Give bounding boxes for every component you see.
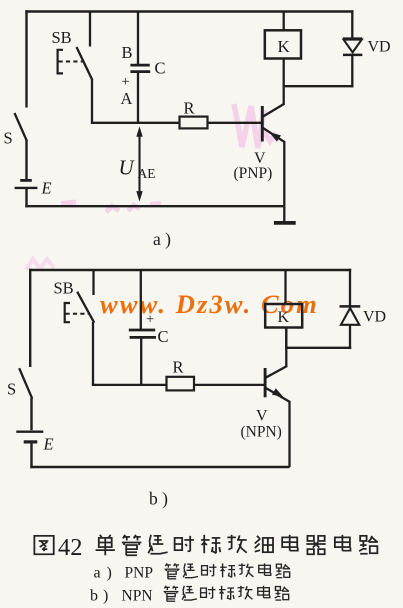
wire: top rail down to diode VD (a) (351, 10, 353, 38)
svg-text:R: R (184, 99, 195, 118)
battery E (a) short plate (negative) (20, 179, 32, 182)
svg-text:B: B (122, 43, 133, 62)
svg-text:PNP: PNP (125, 565, 153, 582)
wire: left rail upper segment (b) (29, 269, 31, 367)
wire: resistor R to transistor base (a) (208, 122, 262, 124)
svg-text:+: + (122, 74, 130, 90)
battery E (b) long plate (positive) (16, 431, 43, 433)
svg-text:(NPN): (NPN) (241, 424, 282, 441)
wire: resistor R to transistor base (b) (194, 384, 264, 386)
push-button SB (b): actuator bracket (65, 303, 70, 322)
wire: relay K bottom to collector junction (b) (285, 328, 287, 350)
push-button SB (a): blade (77, 47, 93, 80)
capacitor C (a): bottom plate (130, 70, 150, 73)
wire: relay K to emitter junction (a) (283, 58, 285, 87)
wire: bottom rail of circuit a (25, 205, 284, 207)
wire: left rail upper segment (a) (25, 10, 27, 107)
transistor V (b): collector lead (upper diagonal) (266, 366, 288, 378)
wire: collector vertical down to bottom rail (a) (283, 141, 285, 206)
svg-text:AE: AE (138, 166, 156, 181)
battery E (a) long plate (positive) (15, 187, 38, 189)
svg-text:C: C (158, 327, 169, 346)
diode VD (a): triangle (cathode down) (343, 37, 362, 39)
resistor R (a): box (180, 117, 208, 129)
wire: left rail below battery (a) (25, 189, 27, 207)
wire: capacitor branch from top rail (a) (137, 12, 139, 65)
diode VD (a): cathode bar (343, 54, 362, 57)
svg-text:(PNP): (PNP) (234, 165, 273, 182)
switch S (b) blade (19, 368, 32, 398)
wire: left rail between switch S and battery E (b) (30, 398, 32, 430)
wire: emitter vertical down to bottom rail (b) (288, 401, 290, 467)
wire: capacitor branch from top rail (b) (140, 270, 142, 330)
transistor V (b): emitter lead (lower diagonal) with NPN arrow (266, 388, 291, 402)
svg-text:): ) (103, 588, 108, 605)
wire: top rail of circuit b (29, 269, 351, 271)
wire: capacitor C to mid rail (a) (137, 73, 139, 124)
watermark remnant (pink, above circuit b top-left corner) (26, 259, 54, 270)
svg-text:S: S (4, 129, 13, 148)
transistor V (a) PNP: base bar (261, 106, 264, 142)
svg-text:+: + (146, 312, 154, 328)
wire: bottom rail of circuit b (30, 466, 289, 468)
ground symbol (a) (283, 206, 285, 221)
voltage arrow U_AE (a): double-headed vertical arrow (138, 133, 140, 195)
svg-text:VD: VD (368, 39, 391, 56)
push-button SB (a): fixed contact from top rail (89, 12, 91, 47)
relay coil K (b): box (265, 304, 302, 328)
svg-text:V: V (256, 408, 268, 425)
svg-text:a ): a ) (153, 229, 171, 249)
transistor V (a): collector lead (lower diagonal) with PNP arrow (263, 128, 285, 142)
wire: capacitor C to mid rail (b) (140, 339, 142, 387)
wire: top rail to relay K (a) (283, 12, 285, 31)
wire: mid rail from SB to resistor R (b) (92, 384, 167, 386)
diode VD (b): triangle (cathode up) (341, 308, 359, 325)
push-button SB (b): dashed actuator link (66, 313, 91, 315)
svg-text:NPN: NPN (122, 588, 153, 605)
svg-text:A: A (121, 89, 133, 108)
relay coil K (a): box (265, 30, 301, 58)
watermark remnant (pink, around transistor V of circuit a) (234, 104, 276, 148)
svg-text:): ) (107, 565, 112, 582)
watermark remnant (pink, on bottom wire of circuit a) (61, 202, 161, 212)
svg-text:U: U (119, 156, 136, 180)
svg-text:K: K (278, 37, 291, 56)
resistor R (b): box (167, 377, 195, 391)
wire: left rail below battery (b) (30, 443, 32, 468)
svg-text:SB: SB (52, 28, 72, 47)
wire: diode VD to junction wire (a) (351, 56, 353, 88)
transistor V (a): emitter lead to relay (upper diagonal) (263, 104, 285, 117)
battery E (b) short plate (negative) (24, 440, 38, 443)
svg-text:SB: SB (54, 279, 74, 298)
svg-text:42: 42 (58, 534, 83, 561)
wire: top rail to relay K (b) (284, 270, 286, 304)
wire: junction to freewheel diode (a) (283, 85, 354, 87)
wire: SB lower leg down to mid rail (a) (91, 79, 93, 124)
push-button SB (b): fixed contact from top rail (92, 270, 94, 295)
wire: SB lower leg down to mid rail (b) (92, 322, 94, 386)
wire: junction to freewheel diode (b) (285, 347, 351, 349)
wire: top rail of circuit a (25, 10, 353, 12)
caption line 1: Fig 42 title (hanzi drawn as strokes) (34, 536, 53, 554)
wire: mid rail from SB to resistor R (a) (91, 122, 180, 124)
capacitor C (b): bottom plate (130, 336, 156, 339)
capacitor C (b): top plate (129, 329, 155, 332)
push-button SB (a): dashed actuator link (59, 61, 85, 63)
svg-text:E: E (43, 435, 54, 454)
diode VD (b): cathode bar (340, 305, 361, 308)
svg-text:R: R (173, 358, 184, 377)
transistor V (b) NPN: base bar (264, 368, 267, 397)
switch S (a) blade (15, 113, 27, 141)
push-button SB (a): actuator bracket (58, 50, 63, 74)
wire: top rail down to diode VD (b) (349, 269, 351, 306)
wire: emitter vertical up to junction (a) (283, 87, 285, 104)
wire: left rail between switch S and battery E (a) (25, 140, 27, 180)
push-button SB (b): blade (77, 292, 94, 323)
svg-text:C: C (155, 59, 166, 78)
svg-text:K: K (278, 309, 290, 326)
wire: diode VD to junction wire (b) (349, 325, 351, 349)
svg-text:E: E (41, 179, 52, 198)
capacitor C (a): top plate (130, 64, 149, 67)
svg-text:b: b (90, 588, 98, 605)
svg-text:S: S (7, 380, 16, 399)
svg-text:a: a (94, 565, 101, 582)
svg-text:VD: VD (363, 309, 386, 326)
wire: collector vertical up to relay K (b) (285, 328, 287, 367)
svg-text:b ): b ) (149, 489, 168, 509)
